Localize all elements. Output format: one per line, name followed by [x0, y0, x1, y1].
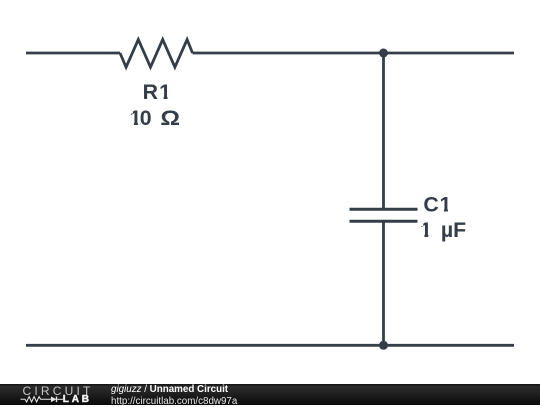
value 10 Ω: [130, 105, 181, 129]
svg-text:Ω: Ω: [160, 105, 180, 129]
wire: bottom rail: [26, 344, 514, 347]
svg-text:R: R: [143, 80, 158, 104]
svg-text:C: C: [423, 192, 438, 216]
capacitor C1: [350, 209, 418, 221]
junction node: top: [379, 49, 388, 58]
wire: top-left segment: [26, 52, 120, 55]
footer bar: [0, 384, 540, 405]
value 1 µF: [420, 218, 466, 242]
wire: capacitor C1 bottom plate to bottom junction: [382, 222, 385, 345]
wire: top-right segment (resistor to right end): [193, 52, 515, 55]
svg-text:1: 1: [440, 192, 452, 216]
CircuitLab logo: [0, 384, 100, 405]
svg-text:µ: µ: [441, 218, 453, 242]
label C1: [423, 192, 451, 216]
label R1: [143, 80, 172, 104]
svg-text:1: 1: [159, 80, 171, 104]
footer attribution text: [111, 385, 237, 406]
svg-text:LAB: LAB: [63, 394, 92, 405]
svg-text:F: F: [453, 218, 466, 242]
resistor R1: [120, 40, 193, 68]
svg-text:0: 0: [140, 106, 152, 130]
wire: top junction to capacitor C1 top plate: [382, 53, 385, 208]
junction node: bottom: [379, 341, 388, 350]
